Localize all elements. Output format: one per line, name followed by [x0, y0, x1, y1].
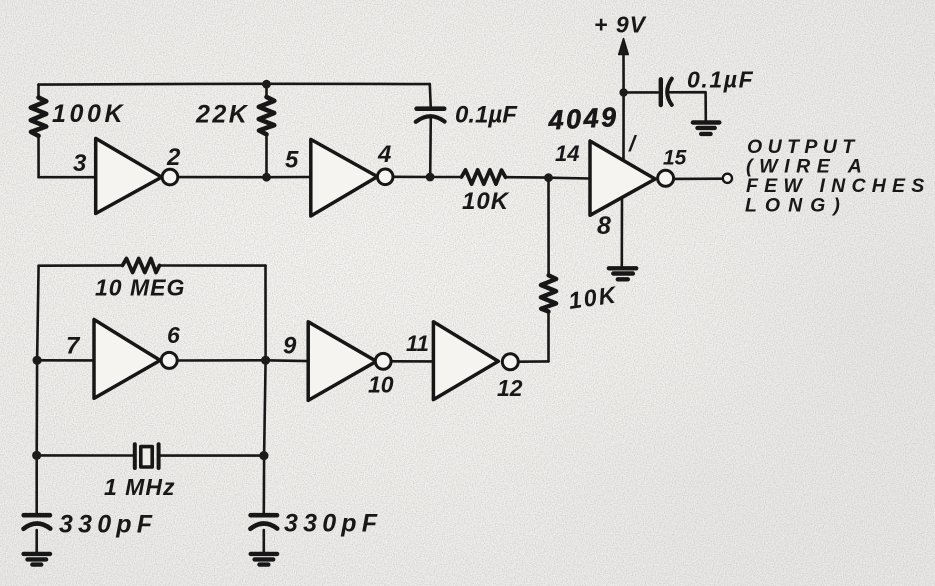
svg-text:10: 10 — [368, 372, 394, 398]
node: crystal left junction — [32, 451, 41, 460]
svg-text:15: 15 — [663, 147, 687, 170]
node: pin9 junction — [261, 356, 270, 365]
bubble U1b output — [377, 169, 393, 185]
wire: cap node to 10K resistor — [430, 176, 462, 179]
crystal Y1 right plate — [157, 444, 161, 468]
resistor R4 10K (vertical zigzag) — [541, 275, 556, 311]
ground under C4 — [251, 554, 277, 565]
bubble U1f output — [502, 354, 518, 370]
node: rail / 22K junction — [262, 80, 271, 89]
capacitor C1 0.1uF top plate — [417, 106, 445, 111]
inverter U1b (pins 5-4) triangle — [311, 139, 378, 216]
svg-text:22K: 22K — [195, 101, 249, 129]
wire: crystal left lead — [37, 454, 134, 457]
crystal Y1 body rectangle — [141, 447, 152, 467]
bubble U1c output — [658, 170, 674, 186]
inverter U1d (pins 7-6) triangle — [94, 320, 160, 399]
+9V supply arrow wire — [622, 51, 625, 93]
wire: vertical 10K down to U1f output corner — [547, 311, 550, 361]
wire: pin 8 from triangle to ground — [620, 197, 623, 266]
crystal Y1 left plate — [133, 444, 137, 468]
node: 22K / signal junction — [262, 173, 271, 182]
wire: U1c output pin15 to output terminal — [673, 177, 722, 180]
ground under C3 — [24, 554, 50, 565]
wire: left vertical osc rail — [37, 266, 39, 513]
svg-text:4: 4 — [377, 141, 391, 168]
resistor R3 10K (horizontal zigzag) — [462, 170, 506, 184]
wire: mid node to U1c pin 14 — [549, 176, 591, 179]
svg-text:LONG): LONG) — [745, 195, 848, 217]
wire: U1e output pin10 to U1f pin 11 — [391, 360, 433, 363]
resistor R1 100K (vertical zigzag) — [31, 98, 47, 136]
capacitor C1 0.1uF curved plate — [416, 116, 445, 122]
svg-text:4049: 4049 — [547, 102, 620, 136]
node: pin7 left junction — [33, 356, 42, 365]
wire: bypass cap to its ground — [669, 92, 705, 120]
wire: node to inverter U1b pin 5 — [267, 176, 311, 179]
capacitor C2 0.1uF straight plate — [659, 79, 663, 105]
wire: input to inverter U1a pin 3 — [39, 176, 96, 179]
svg-text:9: 9 — [283, 333, 297, 360]
capacitor C4 330pF right top plate — [251, 513, 277, 518]
wire: C3 to ground — [35, 530, 38, 552]
wire: cap branch vertical lower (C1 to signal node) — [429, 116, 432, 178]
node: +9V junction — [619, 88, 627, 96]
wire: left vertical below 100K to input node — [37, 136, 40, 178]
inverter U1e (pins 9-10) triangle — [308, 322, 376, 401]
wire: U1b output pin4 to cap node — [393, 176, 430, 179]
wire: feedback rail right of 10MEG — [160, 264, 266, 267]
svg-text:330pF: 330pF — [284, 510, 382, 538]
wire: 22K top stub from rail — [265, 84, 268, 97]
bubble U1e output — [375, 353, 391, 369]
svg-text:12: 12 — [497, 375, 523, 401]
svg-text:14: 14 — [555, 141, 579, 166]
wire: U1a output pin2 to 22K node — [177, 176, 266, 179]
svg-text:+ 9V: + 9V — [594, 12, 647, 38]
svg-text:6: 6 — [167, 322, 180, 348]
+9V arrowhead — [619, 39, 629, 55]
inverter U1c 4049 (pins 14-15) triangle — [590, 141, 655, 215]
svg-text:3: 3 — [73, 150, 87, 177]
wire: crystal right lead — [160, 454, 265, 457]
wire: U1f bubble to corner — [518, 360, 548, 363]
wire: supply node to bypass cap C2 — [624, 91, 658, 94]
node: crystal right junction — [259, 451, 268, 460]
node: C1 / signal junction — [426, 173, 435, 182]
wire: cap branch vertical upper (rail to C1 top plate) — [428, 84, 432, 106]
bubble U1a output — [162, 169, 178, 185]
node: 10K mid junction — [544, 173, 553, 182]
wire: node to inverter U1d pin 7 — [37, 359, 94, 362]
svg-text:11: 11 — [406, 331, 429, 356]
wire: C4 to ground — [262, 530, 265, 552]
resistor R5 10MEG (horizontal zigzag) — [123, 259, 160, 273]
wire: left vertical stub above 100K — [37, 85, 40, 98]
svg-text:0.1µF: 0.1µF — [687, 67, 754, 93]
ground under bypass cap — [693, 123, 719, 134]
capacitor C2 0.1uF curved plate — [667, 79, 672, 105]
capacitor C3 330pF left top plate — [24, 513, 50, 518]
ground under pin 8 — [609, 268, 636, 279]
capacitor C4 330pF right curved plate — [250, 524, 277, 529]
resistor R2 22K (vertical zigzag) — [259, 97, 275, 134]
inverter U1f (pins 11-12) triangle — [433, 322, 498, 400]
wire: right vertical osc rail — [264, 266, 266, 513]
wire: U1d output pin6 to node 9 — [178, 359, 266, 362]
wire: 22K bottom to signal node — [265, 134, 268, 177]
wire: feedback rail left of 10MEG — [39, 264, 123, 267]
wire: pin 1 from supply node into triangle — [622, 93, 625, 161]
svg-text:8: 8 — [597, 212, 611, 240]
wire: 10K to mid node — [506, 176, 549, 179]
output terminal circle — [723, 174, 732, 183]
wire: mid node down to vertical 10K — [547, 178, 550, 276]
svg-text:0.1µF: 0.1µF — [455, 102, 518, 129]
svg-text:2: 2 — [166, 144, 181, 171]
svg-text:330pF: 330pF — [59, 511, 157, 539]
wire: top rail from 100K to 0.1uF cap — [39, 83, 430, 86]
svg-text:100K: 100K — [52, 100, 126, 128]
svg-text:7: 7 — [66, 333, 81, 360]
svg-text:1 MHz: 1 MHz — [104, 474, 175, 500]
svg-text:10 MEG: 10 MEG — [95, 275, 185, 301]
bubble U1d output — [161, 352, 177, 368]
wire: node 9 to inverter U1e pin 9 — [266, 359, 309, 362]
inverter U1a (pins 3-2) triangle — [96, 138, 162, 213]
svg-text:10K: 10K — [462, 188, 510, 215]
svg-text:5: 5 — [285, 147, 299, 174]
capacitor C3 330pF left curved plate — [24, 524, 51, 529]
